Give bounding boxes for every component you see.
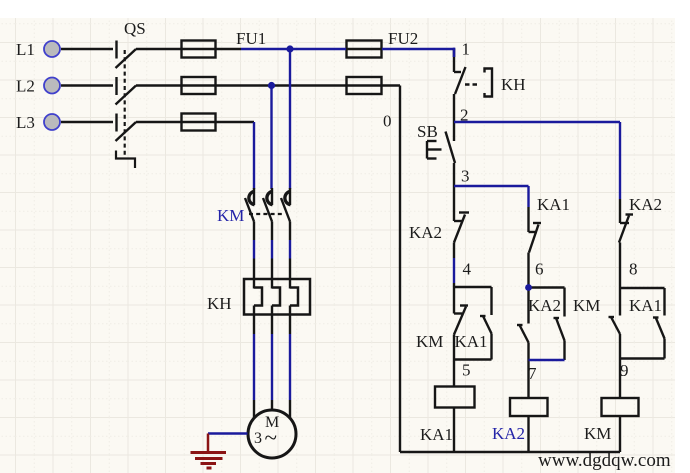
- svg-text:SB: SB: [417, 122, 438, 141]
- svg-text:KA2: KA2: [629, 195, 662, 214]
- svg-text:KA1: KA1: [537, 195, 570, 214]
- svg-text:KM: KM: [573, 296, 600, 315]
- svg-text:KM: KM: [416, 332, 443, 351]
- svg-text:KA1: KA1: [629, 296, 662, 315]
- svg-text:1: 1: [462, 40, 471, 59]
- svg-text:3: 3: [254, 430, 262, 447]
- svg-text:5: 5: [462, 361, 471, 380]
- svg-text:FU1: FU1: [236, 29, 266, 48]
- svg-text:~: ~: [265, 425, 277, 450]
- svg-text:6: 6: [535, 260, 544, 279]
- svg-text:KH: KH: [501, 75, 526, 94]
- svg-text:KA1: KA1: [420, 425, 453, 444]
- svg-text:L2: L2: [16, 77, 35, 96]
- svg-text:7: 7: [528, 364, 537, 383]
- svg-text:2: 2: [460, 106, 469, 125]
- svg-text:8: 8: [629, 260, 638, 279]
- svg-text:3: 3: [461, 167, 470, 186]
- svg-text:KA2: KA2: [492, 424, 525, 443]
- svg-text:KA1: KA1: [455, 332, 488, 351]
- svg-text:4: 4: [463, 260, 472, 279]
- svg-text:KM: KM: [584, 424, 611, 443]
- svg-text:KM: KM: [217, 206, 244, 225]
- svg-text:KH: KH: [207, 294, 232, 313]
- svg-text:L3: L3: [16, 113, 35, 132]
- svg-text:9: 9: [620, 361, 629, 380]
- svg-text:FU2: FU2: [388, 29, 418, 48]
- svg-text:L1: L1: [16, 40, 35, 59]
- svg-text:www.dgdqw.com: www.dgdqw.com: [538, 450, 671, 471]
- svg-text:QS: QS: [124, 19, 146, 38]
- svg-text:KA2: KA2: [528, 296, 561, 315]
- svg-text:0: 0: [383, 112, 392, 131]
- svg-text:KA2: KA2: [409, 223, 442, 242]
